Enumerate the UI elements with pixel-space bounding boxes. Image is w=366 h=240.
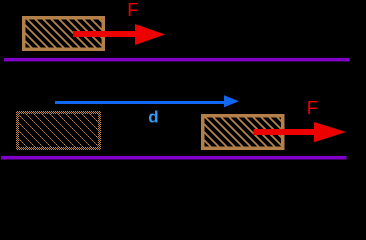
force arrow F1 (top, red): [73, 24, 165, 45]
svg-text:d: d: [148, 107, 158, 126]
block B3 (bottom, hatched, moved position): [203, 116, 283, 149]
svg-text:F: F: [307, 98, 318, 118]
force arrow F2 (bottom, red): [254, 122, 347, 142]
block B1 (top, hatched): [24, 18, 104, 50]
surface line S2 (bottom, purple): [1, 156, 347, 160]
displacement arrow d: [55, 95, 239, 107]
ghost block B2 (dotted outline, start position): [16, 111, 101, 150]
svg-text:F: F: [127, 0, 138, 20]
surface line S1 (top, purple): [4, 58, 350, 62]
